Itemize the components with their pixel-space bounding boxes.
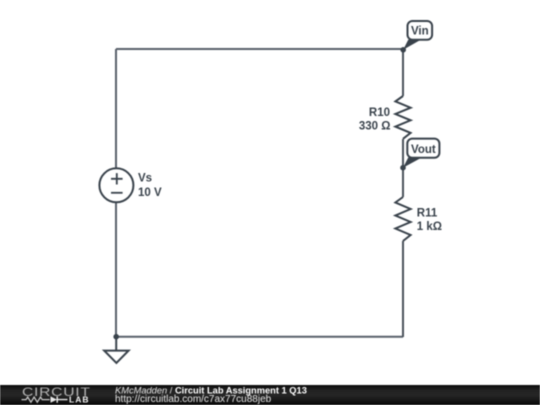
svg-text:10 V: 10 V xyxy=(138,187,162,199)
wire right vertical (Vin node to R10 top) xyxy=(402,49,404,96)
svg-text:LAB: LAB xyxy=(69,395,90,405)
node Vin flag tail xyxy=(403,40,421,50)
svg-text:R10: R10 xyxy=(369,107,390,119)
footer bar xyxy=(0,385,540,405)
wire right vertical (R11 bottom to bottom corner) xyxy=(402,241,404,337)
node Vout flag tail xyxy=(403,157,422,167)
resistor R10 zigzag xyxy=(395,96,410,139)
ground triangle symbol xyxy=(104,351,128,363)
wire left vertical lower (Vs bottom to ground junction) xyxy=(115,202,117,337)
ground junction dot xyxy=(113,334,119,340)
wire bottom horizontal xyxy=(116,336,403,338)
svg-text:330 Ω: 330 Ω xyxy=(359,120,391,132)
svg-text:http://circuitlab.com/c7ax77cu: http://circuitlab.com/c7ax77cu88jeb xyxy=(115,394,272,405)
node Vout junction dot xyxy=(400,165,406,171)
wire top horizontal from node Vin to left branch xyxy=(116,48,403,50)
svg-text:1 kΩ: 1 kΩ xyxy=(417,221,442,233)
svg-text:Vin: Vin xyxy=(411,26,429,38)
node Vin junction dot xyxy=(400,47,406,53)
ground stub wire xyxy=(115,337,117,351)
node Vin flag box xyxy=(408,21,433,40)
node Vout flag box xyxy=(407,139,439,158)
wire right vertical (R10 bottom to R11 top through node Vout) xyxy=(402,139,404,197)
resistor R11 zigzag xyxy=(395,197,410,241)
svg-text:Vs: Vs xyxy=(138,172,152,184)
svg-text:R11: R11 xyxy=(417,207,438,219)
logo resistor-diode squiggle xyxy=(22,397,50,402)
voltage source Vs symbol xyxy=(99,168,133,202)
svg-text:Vout: Vout xyxy=(411,144,436,156)
wire left vertical upper (top corner to Vs top) xyxy=(115,49,117,168)
